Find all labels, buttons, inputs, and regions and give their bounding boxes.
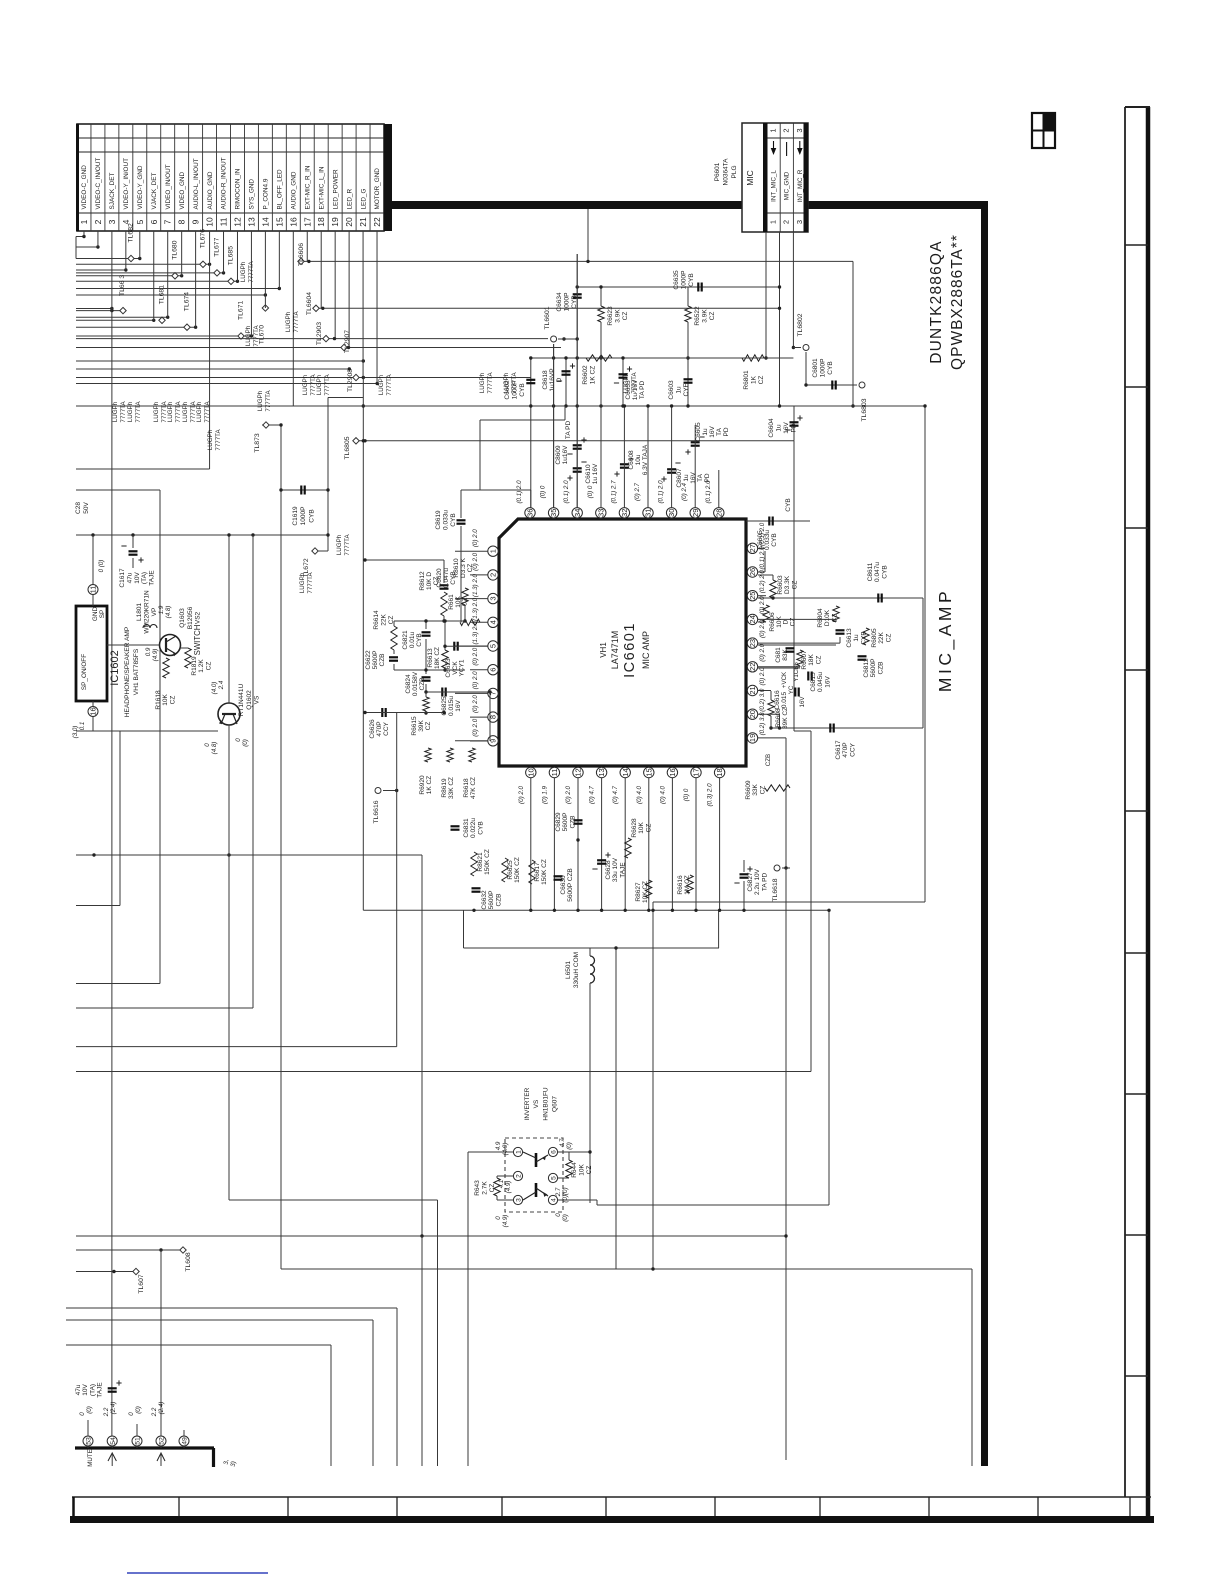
pin 36 IC6601 <box>525 508 535 518</box>
svg-text:7777TA: 7777TA <box>293 311 300 333</box>
svg-text:LUGPh: LUGPh <box>112 401 119 422</box>
svg-text:C681: C681 <box>775 647 782 663</box>
svg-text:CZB: CZB <box>419 678 426 691</box>
connector column divider <box>202 124 204 231</box>
svg-text:18: 18 <box>316 217 326 227</box>
svg-text:C6626: C6626 <box>369 719 376 739</box>
connector column divider <box>90 124 92 231</box>
svg-text:R6801: R6801 <box>743 370 750 390</box>
svg-text:(0) 0: (0) 0 <box>587 485 594 498</box>
svg-text:C6635: C6635 <box>673 270 680 290</box>
capacitor C6810 <box>786 647 795 649</box>
svg-text:16V: 16V <box>709 426 716 438</box>
svg-text:14: 14 <box>260 217 270 227</box>
svg-text:2.2: 2.2 <box>151 1407 158 1417</box>
wire x468 inverter net <box>467 1152 469 1466</box>
svg-text:1: 1 <box>516 1150 523 1154</box>
svg-text:16V: 16V <box>799 696 806 708</box>
test point TL6605 net <box>356 440 794 442</box>
svg-text:(0): (0) <box>242 739 249 747</box>
svg-text:10: 10 <box>526 768 535 776</box>
wire <box>76 258 140 260</box>
svg-text:C1619: C1619 <box>292 506 299 526</box>
wire y905 rail <box>76 905 120 907</box>
svg-text:VIDEO-C_GND: VIDEO-C_GND <box>81 165 88 210</box>
svg-text:VIDEO-C_IN/OUT: VIDEO-C_IN/OUT <box>95 158 102 210</box>
resistor R6614 <box>393 621 395 626</box>
resistor R6611 <box>460 619 480 625</box>
pin 15 IC6601 <box>644 767 654 777</box>
svg-text:CYB: CYB <box>688 273 695 286</box>
pin 29 IC6601 <box>690 508 700 518</box>
svg-text:(0) 2.0: (0) 2.0 <box>472 671 479 689</box>
svg-text:HN1B01FU: HN1B01FU <box>542 1087 549 1121</box>
svg-text:12: 12 <box>232 217 242 227</box>
svg-text:17: 17 <box>302 217 312 227</box>
wire rail y621 <box>394 620 465 622</box>
svg-text:0.033u: 0.033u <box>442 510 449 530</box>
wire stubs above bus <box>87 1420 89 1436</box>
svg-text:C6604: C6604 <box>768 418 775 438</box>
svg-text:CCY: CCY <box>383 721 390 735</box>
svg-text:29: 29 <box>691 509 700 517</box>
wire connector pin 12 drop <box>236 231 238 281</box>
svg-text:LUGPh: LUGPh <box>378 374 385 395</box>
wire <box>76 280 237 282</box>
wire y1046 <box>76 1046 397 1048</box>
pin 17 IC6601 <box>691 767 701 777</box>
svg-text:R8627: R8627 <box>635 882 642 902</box>
svg-text:CZ: CZ <box>425 722 432 731</box>
wire rail y670 <box>394 669 465 671</box>
svg-text:CCY: CCY <box>849 742 856 756</box>
svg-text:CYB: CYB <box>519 383 526 396</box>
test point TL6602 <box>793 347 801 349</box>
title block divider <box>501 1497 503 1516</box>
wire long TL2907 net <box>76 347 561 349</box>
pin 30 IC6601 <box>666 508 676 518</box>
pin 4 Q607 <box>548 1195 557 1204</box>
svg-text:SP: SP <box>99 610 106 619</box>
svg-text:TL6606: TL6606 <box>298 243 305 266</box>
svg-text:IC1602: IC1602 <box>109 650 121 685</box>
transistor Q607b <box>535 1183 538 1197</box>
resistor R6623 <box>598 306 604 322</box>
svg-text:0.045u: 0.045u <box>817 672 824 692</box>
svg-text:3: 3 <box>795 220 804 224</box>
capacitor C6627 polarized <box>740 873 749 875</box>
svg-text:C6824: C6824 <box>405 674 412 694</box>
svg-text:1.9: 1.9 <box>158 605 165 614</box>
svg-text:(0)(0): (0)(0) <box>562 1187 569 1202</box>
svg-text:BL_OFF_LED: BL_OFF_LED <box>277 169 284 210</box>
svg-text:MOTOR_GND: MOTOR_GND <box>374 168 381 210</box>
svg-text:LUGPh: LUGPh <box>182 401 189 422</box>
svg-text:L1801: L1801 <box>136 603 143 621</box>
svg-text:0: 0 <box>204 743 211 747</box>
capacitor C6633 polarized <box>622 358 624 406</box>
blue underline mark <box>127 1572 268 1574</box>
svg-text:C6812: C6812 <box>863 658 870 678</box>
svg-text:C6610: C6610 <box>585 464 592 484</box>
svg-text:+VCK: +VCK <box>781 671 788 688</box>
wire rail y560 <box>365 559 444 561</box>
wire TL607 <box>76 1271 136 1273</box>
pin 11 IC6601 <box>549 767 559 777</box>
svg-text:4.1: 4.1 <box>498 1180 505 1189</box>
wire y490 <box>76 489 160 491</box>
resistor R6621 <box>471 852 477 876</box>
svg-text:D3.3K: D3.3K <box>784 575 791 594</box>
svg-text:(4.9): (4.9) <box>152 649 159 662</box>
svg-text:7777TA: 7777TA <box>248 261 255 283</box>
svg-text:R6628: R6628 <box>631 818 638 838</box>
svg-text:(0) 4.0: (0) 4.0 <box>636 786 643 804</box>
svg-text:C6827: C6827 <box>747 872 754 892</box>
svg-text:R6608: R6608 <box>775 708 782 728</box>
svg-text:19: 19 <box>330 217 340 227</box>
svg-text:0 (0): 0 (0) <box>98 560 105 573</box>
svg-text:10K: 10K <box>638 822 645 834</box>
svg-text:150K CZ: 150K CZ <box>484 849 491 875</box>
connector column divider <box>243 124 245 231</box>
svg-text:LUGPh: LUGPh <box>299 572 306 593</box>
svg-text:CZ: CZ <box>709 312 716 321</box>
pin 3 IC6601 <box>488 593 498 603</box>
svg-text:TAJE: TAJE <box>149 570 156 586</box>
svg-text:R6625: R6625 <box>507 860 514 880</box>
svg-text:CYB: CYB <box>827 361 834 374</box>
svg-text:TA: TA <box>697 473 704 481</box>
svg-text:13: 13 <box>597 768 606 776</box>
wire x616 <box>615 948 617 1269</box>
svg-text:CZ: CZ <box>169 696 176 705</box>
svg-text:5600P: 5600P <box>488 891 495 910</box>
node pin 49 <box>179 1436 189 1446</box>
svg-text:EXT-MIC_R_IN: EXT-MIC_R_IN <box>304 165 311 209</box>
svg-text:HEADPHONE/SPEAKER AMP: HEADPHONE/SPEAKER AMP <box>124 626 131 717</box>
svg-text:39K: 39K <box>418 720 425 732</box>
svg-text:R6607: R6607 <box>801 650 808 670</box>
svg-text:47K CZ: 47K CZ <box>470 777 477 799</box>
svg-text:2: 2 <box>782 220 791 224</box>
test point TL6616 <box>375 788 381 794</box>
wire corner y983 <box>76 983 160 985</box>
svg-text:15: 15 <box>644 768 653 776</box>
dash MIC pin2 <box>786 142 788 156</box>
wire y1205 <box>597 1204 829 1206</box>
mute bus bottom left <box>75 1446 214 1449</box>
svg-text:2.7: 2.7 <box>555 1187 562 1197</box>
capacitor C6605b region <box>746 520 810 522</box>
resistor R6622 <box>685 306 691 322</box>
wire TL6606 net <box>301 260 853 262</box>
svg-text:C8611: C8611 <box>867 562 874 581</box>
pin 21 IC6601 <box>747 685 757 695</box>
registration mark icon <box>1032 113 1055 148</box>
pin 23 IC6601 <box>747 638 757 648</box>
svg-text:R6920: R6920 <box>419 775 426 795</box>
svg-text:R8621: R8621 <box>477 852 484 872</box>
svg-text:1000P: 1000P <box>681 271 688 290</box>
svg-text:1u: 1u <box>683 474 690 482</box>
svg-text:(TA): (TA) <box>141 572 148 584</box>
node pin 54 <box>107 1436 117 1446</box>
svg-text:VJACK_DET: VJACK_DET <box>151 172 158 209</box>
svg-text:1u16V: 1u16V <box>562 445 569 464</box>
wire x829 <box>828 910 830 1205</box>
svg-text:0: 0 <box>79 1412 86 1416</box>
svg-text:LUGPh: LUGPh <box>316 374 323 395</box>
svg-text:(TA): (TA) <box>89 1384 96 1396</box>
svg-text:C6603: C6603 <box>668 380 675 400</box>
svg-text:AUDIO_GND: AUDIO_GND <box>207 171 214 209</box>
svg-text:R6615: R6615 <box>411 716 418 736</box>
svg-text:23: 23 <box>748 639 757 647</box>
svg-text:30: 30 <box>667 509 676 517</box>
pin 2 Q607 <box>513 1171 522 1180</box>
svg-text:C1617: C1617 <box>119 568 126 588</box>
svg-text:18K: 18K <box>808 654 815 666</box>
test point TL681 <box>159 317 165 323</box>
svg-text:PD: PD <box>723 427 730 436</box>
svg-text:CZ: CZ <box>467 564 474 573</box>
svg-text:LED_R: LED_R <box>346 189 353 210</box>
wire <box>76 275 182 277</box>
svg-text:R6804: R6804 <box>817 608 824 628</box>
svg-text:CZB: CZB <box>765 754 772 766</box>
svg-text:LUGPh: LUGPh <box>336 534 343 555</box>
svg-text:TA PD: TA PD <box>761 873 768 892</box>
resistor R1618 <box>163 658 169 678</box>
arrow bus 52 <box>157 1453 165 1461</box>
svg-text:CZ: CZ <box>759 786 766 795</box>
svg-text:(4.8): (4.8) <box>211 742 218 755</box>
pin 3 Q607 <box>513 1195 522 1204</box>
wire MIC pin2 drop <box>779 232 781 406</box>
svg-text:QPWBX2886TA**: QPWBX2886TA** <box>949 234 966 370</box>
capacitor C6612 <box>858 655 867 657</box>
svg-text:C6632: C6632 <box>481 890 488 910</box>
svg-text:49: 49 <box>182 1437 189 1445</box>
svg-text:470P: 470P <box>376 721 383 736</box>
wire connector pin 6 drop <box>153 231 155 320</box>
node pin 52 <box>156 1436 166 1446</box>
connector column divider <box>230 124 232 231</box>
svg-text:CZ: CZ <box>433 577 440 586</box>
svg-text:18K CZ: 18K CZ <box>434 647 441 669</box>
wire x396 long <box>396 713 398 1047</box>
wire pin10 net drop <box>209 264 211 469</box>
wire TL6602 down <box>805 352 807 385</box>
wire <box>76 316 168 318</box>
test point TL680 <box>172 273 178 279</box>
test point TL685 <box>228 278 234 284</box>
svg-text:(4.9): (4.9) <box>502 1215 509 1228</box>
wire connector pin 18 drop <box>320 231 322 308</box>
svg-text:EXT-MIC_L_IN: EXT-MIC_L_IN <box>318 166 325 209</box>
svg-text:TL608: TL608 <box>185 1252 192 1271</box>
test point TL674 <box>184 324 190 330</box>
svg-text:22: 22 <box>372 217 382 227</box>
wire connector pin 11 drop <box>223 231 225 273</box>
resistor R6612 <box>441 592 447 616</box>
wire Q607 pin3 <box>497 1199 513 1201</box>
svg-text:6: 6 <box>149 219 159 224</box>
wire pin9 net <box>489 692 491 741</box>
svg-text:1: 1 <box>489 549 498 553</box>
svg-text:CZB: CZB <box>495 894 502 907</box>
title block divider <box>1037 1497 1039 1516</box>
resistor R6608 <box>768 700 774 716</box>
capacitor C6616 <box>794 688 796 697</box>
svg-text:(0) 1.9: (0) 1.9 <box>541 786 548 804</box>
svg-text:(0) 0: (0) 0 <box>540 485 547 498</box>
svg-text:Q607: Q607 <box>552 1096 559 1112</box>
svg-text:TL66 3: TL66 3 <box>119 275 126 296</box>
nested corner wire 1 <box>66 1307 397 1309</box>
svg-text:5600P: 5600P <box>870 659 877 678</box>
inductor L1601 <box>143 625 150 629</box>
svg-text:(0.1) 2.0: (0.1) 2.0 <box>705 480 712 504</box>
svg-text:3): 3) <box>230 1461 237 1467</box>
svg-text:CZ: CZ <box>831 614 838 623</box>
transistor Q1603 <box>160 635 181 656</box>
inductor L6601 <box>589 948 591 956</box>
svg-text:6: 6 <box>489 668 498 672</box>
svg-text:28: 28 <box>714 509 723 517</box>
svg-text:5: 5 <box>551 1176 558 1180</box>
svg-text:54: 54 <box>110 1437 117 1445</box>
resistor R6605 <box>863 628 869 645</box>
svg-text:0.9: 0.9 <box>145 647 152 656</box>
svg-text:TL6604: TL6604 <box>306 292 313 315</box>
svg-text:53: 53 <box>86 1437 93 1445</box>
wire TL608 <box>76 1249 183 1251</box>
connector column divider <box>341 124 343 231</box>
svg-text:R6616: R6616 <box>677 875 684 895</box>
svg-text:CZB: CZB <box>877 662 884 675</box>
svg-text:TA: TA <box>716 427 723 435</box>
test point TL6601 <box>551 336 557 342</box>
svg-text:PLG: PLG <box>731 165 738 178</box>
svg-text:2.7K: 2.7K <box>481 1181 488 1195</box>
capacitor C6634 <box>576 254 578 508</box>
svg-text:RIMOCON_IN: RIMOCON_IN <box>235 168 242 209</box>
resistor R1619 <box>185 648 191 668</box>
connector right end bar <box>384 124 392 231</box>
svg-text:R6617: R6617 <box>534 862 541 882</box>
wire top pin drops <box>553 344 555 508</box>
svg-text:(0.1) 2.0: (0.1) 2.0 <box>563 480 570 504</box>
wire connector pin 5 drop <box>139 231 141 259</box>
svg-text:10u: 10u <box>635 454 642 465</box>
wire connector pin 8 drop <box>181 231 183 276</box>
wire connector pin 1 drop <box>83 231 85 237</box>
svg-text:C6608: C6608 <box>628 450 635 470</box>
svg-text:0.047u: 0.047u <box>443 568 450 588</box>
svg-text:C6634: C6634 <box>556 292 563 312</box>
long vertical wire x363 <box>362 378 364 911</box>
svg-text:LUGPh: LUGPh <box>167 401 174 422</box>
title block divider <box>605 1497 607 1516</box>
test point TL682 <box>128 255 134 261</box>
svg-text:20: 20 <box>344 217 354 227</box>
svg-text:RT1N441U: RT1N441U <box>238 684 245 717</box>
transistor Q1602 <box>218 703 240 725</box>
capacitor C6609 polarized <box>573 444 582 446</box>
op-amp IC U6601 MIC AMP <box>499 519 746 766</box>
svg-text:(0) 2.0: (0) 2.0 <box>472 529 479 547</box>
svg-text:150K CZ: 150K CZ <box>514 857 521 883</box>
svg-text:7777TA: 7777TA <box>324 374 331 396</box>
svg-text:CYF: CYF <box>683 383 690 396</box>
pin 10 IC6601 <box>526 767 536 777</box>
long vertical wire x281 TL673 net <box>280 425 282 1269</box>
svg-text:D: D <box>556 377 563 382</box>
pin 13 IC6601 <box>596 767 606 777</box>
svg-text:(2.4): (2.4) <box>158 1402 165 1415</box>
svg-text:TL2903: TL2903 <box>316 322 323 345</box>
svg-text:(2.4): (2.4) <box>110 1402 117 1415</box>
capacitor C1617 polarized <box>132 535 134 548</box>
svg-text:LUGPh: LUGPh <box>153 401 160 422</box>
svg-text:18: 18 <box>715 768 724 776</box>
svg-text:TL2907: TL2907 <box>344 330 351 353</box>
svg-text:(0) 2.4: (0) 2.4 <box>681 483 688 501</box>
capacitor C6613 <box>836 629 845 631</box>
wire connector pin 9 drop <box>195 231 197 327</box>
svg-text:Q1602: Q1602 <box>246 690 253 710</box>
capacitor C6622 <box>389 656 398 658</box>
svg-text:10V: 10V <box>134 572 141 584</box>
svg-text:13: 13 <box>246 217 256 227</box>
wire connector pin 19 drop <box>334 231 336 339</box>
svg-text:4.7: 4.7 <box>559 1138 566 1147</box>
wire long TL2903 net <box>76 338 548 340</box>
ruler tick <box>1125 1234 1148 1236</box>
svg-text:16V: 16V <box>455 700 462 712</box>
svg-text:WM220KR71N: WM220KR71N <box>143 590 150 634</box>
svg-text:(0) 2.0: (0) 2.0 <box>472 695 479 713</box>
svg-text:CZ: CZ <box>645 824 652 833</box>
svg-text:VIDEO-Y_IN/OUT: VIDEO-Y_IN/OUT <box>123 158 130 210</box>
wire fan y369 <box>76 368 349 370</box>
svg-text:C6602: C6602 <box>504 380 511 400</box>
connector column divider <box>104 124 106 231</box>
svg-text:(3.0): (3.0) <box>72 726 79 739</box>
svg-text:CZB: CZB <box>569 816 576 829</box>
wire connector pin 21 drop <box>362 231 364 378</box>
arrow MIC pin <box>797 148 803 155</box>
svg-text:4: 4 <box>489 620 498 624</box>
svg-text:(0) 2.0: (0) 2.0 <box>759 667 766 685</box>
svg-text:1K: 1K <box>751 375 758 384</box>
svg-text:6: 6 <box>551 1150 558 1154</box>
capacitor C6605 polarized <box>691 441 700 443</box>
op-amp IC1602 block <box>76 606 107 701</box>
wire connector pin 10 drop <box>209 231 211 264</box>
wire y535 rail <box>76 534 328 536</box>
connector CN main 22-pin <box>77 124 384 231</box>
svg-text:16: 16 <box>288 217 298 227</box>
svg-text:TL677: TL677 <box>214 237 221 256</box>
svg-text:1.2K: 1.2K <box>198 659 205 673</box>
wire x421 drop <box>421 1236 423 1466</box>
wire Q607 pin2 <box>512 1175 514 1177</box>
wire <box>76 308 112 310</box>
connector column divider <box>299 124 301 231</box>
